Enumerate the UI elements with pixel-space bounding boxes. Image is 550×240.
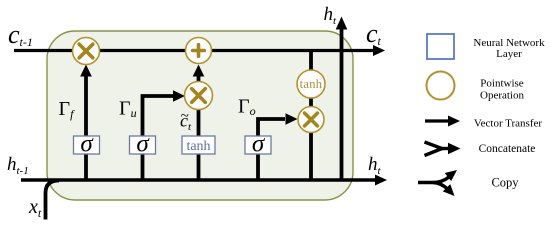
svg-text:Operation: Operation [480,90,524,102]
wire cell-state top line c [14,49,374,52]
wire bottom h line [21,178,376,182]
wire h_t up output [340,29,344,180]
wire c to tanh column [309,51,313,71]
svg-text:tanh: tanh [300,77,323,91]
wire forget-gate vertical [84,75,88,180]
pointwise multiply (output) [298,107,324,133]
LSTM cell body [47,31,353,200]
svg-text:Vector Transfer: Vector Transfer [474,118,542,130]
legend pointwise operation circle [427,72,455,100]
svg-text:σ: σ [136,131,150,158]
svg-text:~: ~ [181,109,189,125]
pointwise multiply (update) [185,82,213,110]
svg-text:Pointwise: Pointwise [480,78,524,90]
svg-text:Layer: Layer [496,48,522,60]
sigma box (forget) [74,136,100,154]
tanh box [182,136,215,154]
svg-text:tanh: tanh [186,139,210,154]
legend concatenate symbol [425,142,443,156]
pointwise tanh circle [297,70,325,98]
wire candidate tanh vertical [197,110,201,180]
legend copy symbol [418,177,449,183]
wire output-gate vertical + horizontal into multiplier [258,119,285,180]
wire update-gate vertical + horizontal into multiplier [143,96,174,180]
svg-text:σ: σ [80,131,94,158]
svg-text:Concatenate: Concatenate [479,143,536,155]
sigma box (output) [245,136,271,154]
sigma box (update) [130,136,156,154]
pointwise add [186,38,212,64]
legend neural network layer box [427,34,454,59]
svg-text:Copy: Copy [491,176,519,190]
pointwise multiply (forget) [73,38,100,65]
legend vector transfer arrow [425,119,449,122]
svg-text:σ: σ [252,131,266,158]
wire multiplier to adder [197,76,201,82]
wire x_t input curve [46,181,60,220]
